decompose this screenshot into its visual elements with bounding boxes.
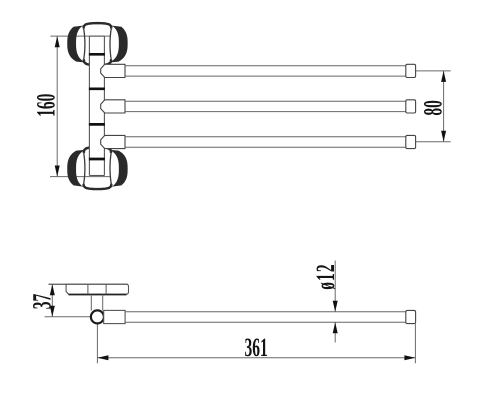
- window right side: [110, 27, 112, 60]
- dim 37 label: [28, 294, 57, 310]
- dim phi12 label: [312, 263, 341, 290]
- dim 160 dimension line: [56, 36, 58, 176]
- dim 37 extension line bottom: [45, 316, 91, 318]
- right crescent: [108, 150, 128, 187]
- towel bar 3 pivot bullet: [101, 135, 125, 148]
- dim 361 dimension line: [97, 357, 415, 359]
- dim phi12 arrow down: [333, 301, 338, 312]
- post joint tick 2: [89, 87, 105, 90]
- window top arc: [84, 23, 112, 28]
- towel bar 3 end cap: [406, 135, 416, 148]
- svg-text:160: 160: [32, 93, 61, 117]
- dim 160 arrow down: [55, 166, 60, 177]
- dim 361 arrow right: [404, 355, 415, 360]
- left crescent: [67, 150, 87, 187]
- dim 160 label: [32, 93, 61, 117]
- dim 80 extension line bottom: [416, 141, 451, 143]
- dim phi12 arrow up: [333, 322, 338, 333]
- towel bar 1 rails: [125, 66, 406, 76]
- dim 37 extension line top / plate top edge: [49, 283, 67, 285]
- wall post top view: [89, 36, 104, 176]
- post joint tick 4: [89, 158, 105, 161]
- towel bar 1 end cap: [406, 64, 416, 77]
- svg-text:ø12: ø12: [312, 263, 341, 290]
- towel bar 2 end cap: [406, 100, 416, 113]
- towel bar 2 pivot bullet: [101, 100, 125, 113]
- dim 80 extension line top: [416, 70, 451, 72]
- svg-text:37: 37: [28, 294, 57, 310]
- dim 37 dimension line: [51, 284, 53, 317]
- dim 80 dimension line: [443, 71, 445, 142]
- pivot post side view: [91, 295, 102, 311]
- post joint tick 3: [89, 123, 105, 126]
- upper wall plate: [67, 23, 127, 65]
- window left side: [83, 153, 85, 186]
- window left side: [83, 27, 85, 60]
- window bottom arc: [84, 147, 111, 153]
- dim 361 extension line right: [414, 324, 416, 363]
- pivot sleeve: [104, 310, 125, 323]
- bottom bar rails: [125, 312, 406, 323]
- dim 160 extension line bottom: [50, 176, 111, 178]
- svg-text:80: 80: [419, 100, 448, 116]
- wall plate side profile: [49, 284, 129, 294]
- svg-text:361: 361: [245, 334, 268, 363]
- right crescent: [108, 25, 128, 62]
- dim 80 arrow up: [441, 71, 446, 82]
- dim phi12 upper line: [334, 261, 336, 312]
- dim 361 label: [245, 334, 268, 363]
- dim 361 extension line left: [96, 325, 98, 364]
- dim 37 arrow down: [50, 306, 55, 317]
- dim 160 arrow up: [55, 36, 60, 47]
- post joint tick 1: [89, 53, 105, 56]
- left crescent: [67, 25, 87, 62]
- dim phi12 lower line: [334, 322, 336, 342]
- dim 160 extension line top: [50, 35, 110, 37]
- window bottom arc: [84, 59, 111, 65]
- dim 37 arrow up: [50, 284, 55, 295]
- window top arc: [84, 184, 112, 189]
- lower wall plate: [67, 147, 127, 189]
- towel bar 1 pivot bullet: [101, 64, 125, 77]
- bottom bar end cap: [406, 310, 416, 323]
- dim 361 arrow left: [97, 355, 108, 360]
- dim 80 arrow down: [441, 131, 446, 142]
- window right side: [110, 153, 112, 186]
- pivot circle: [91, 310, 104, 323]
- dim 80 label: [419, 100, 448, 116]
- towel bar 3 rails: [125, 137, 406, 147]
- towel bar 2 rails: [125, 101, 406, 111]
